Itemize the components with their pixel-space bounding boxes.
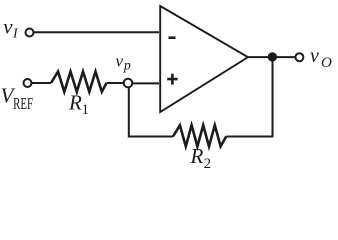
svg-text:v: v [3,15,13,39]
svg-text:R: R [68,91,82,115]
svg-text:REF: REF [13,94,33,113]
svg-text:v: v [310,45,319,67]
svg-text:p: p [123,59,131,74]
svg-text:R: R [190,144,204,168]
svg-text:1: 1 [82,102,90,118]
svg-text:O: O [321,55,332,71]
svg-text:v: v [116,51,124,70]
svg-text:2: 2 [204,156,212,172]
